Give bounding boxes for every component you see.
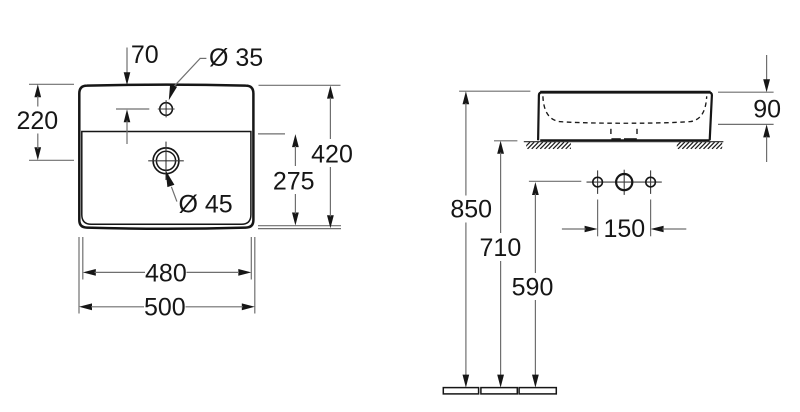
svg-text:150: 150	[603, 215, 645, 243]
svg-text:480: 480	[145, 259, 187, 287]
svg-text:590: 590	[512, 273, 554, 301]
svg-text:500: 500	[144, 294, 186, 322]
svg-text:275: 275	[273, 167, 315, 195]
svg-text:420: 420	[311, 141, 353, 169]
svg-text:850: 850	[450, 196, 492, 224]
svg-text:Ø 45: Ø 45	[179, 191, 233, 219]
svg-text:70: 70	[131, 41, 159, 69]
svg-text:220: 220	[16, 107, 58, 135]
svg-text:710: 710	[480, 234, 522, 262]
svg-text:Ø 35: Ø 35	[209, 44, 263, 72]
svg-text:90: 90	[753, 95, 781, 123]
